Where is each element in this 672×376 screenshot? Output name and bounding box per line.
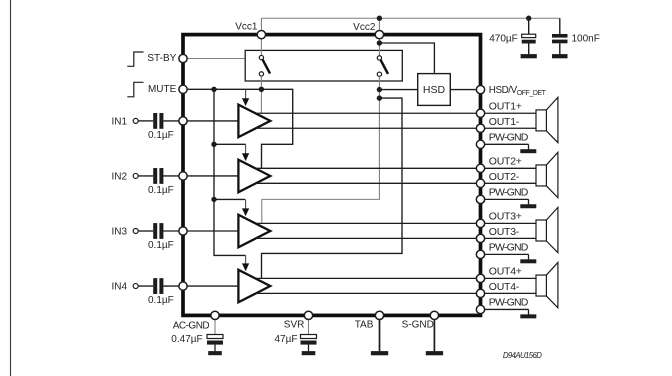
svg-text:D94AU156D: D94AU156D bbox=[503, 351, 542, 360]
svg-text:PW-GND: PW-GND bbox=[489, 186, 529, 198]
mute arrow into amp U3 bbox=[245, 199, 247, 209]
junction dot mute bus amp2 bbox=[211, 142, 216, 147]
wire Vcc2 to HSD top bbox=[379, 43, 434, 73]
wire C3 to pin IN3 bbox=[163, 230, 183, 232]
pin OUT1- bbox=[476, 124, 484, 132]
wire PW-GND 4 bbox=[481, 308, 529, 310]
svg-text:OUT3-: OUT3- bbox=[489, 226, 520, 238]
junction dot SW2/amp4 branch bbox=[377, 95, 382, 100]
mute arrow into amp U4 bbox=[245, 255, 247, 264]
ground PW-GND 4 bbox=[520, 314, 536, 318]
wire Vcc1 pin to switch SW1 bbox=[260, 37, 262, 56]
svg-text:AC-GND: AC-GND bbox=[173, 320, 210, 331]
pin IN1 bbox=[179, 117, 187, 125]
wire SVR to C8 bbox=[308, 317, 310, 334]
wire PW-GND 1 bbox=[481, 143, 529, 145]
ground of C7 bbox=[208, 351, 222, 355]
svg-text:470µF: 470µF bbox=[489, 34, 518, 45]
speaker LS1 bbox=[536, 110, 546, 131]
svg-text:MUTE: MUTE bbox=[148, 84, 177, 95]
wire HSD to HSD/Voff pin bbox=[450, 89, 480, 91]
capacitor C5 470uF bbox=[528, 18, 530, 34]
junction dot SW2/HSD feed bbox=[377, 40, 382, 45]
pin OUT4- bbox=[476, 289, 484, 297]
wire ST-BY to control box bbox=[187, 58, 245, 60]
input terminal IN4 bbox=[133, 284, 138, 289]
wire IN3 terminal to C3 bbox=[138, 230, 153, 232]
wire OUT2- bbox=[256, 182, 536, 184]
capacitor C2 0.1uF bbox=[153, 168, 157, 184]
wire Vcc supply rail bbox=[261, 17, 559, 19]
input terminal IN1 bbox=[133, 118, 138, 123]
speaker LS2 bbox=[536, 165, 546, 186]
wire Vcc2 pin to switch SW2 bbox=[378, 37, 380, 56]
svg-text:IN3: IN3 bbox=[111, 227, 127, 238]
svg-text:47µF: 47µF bbox=[275, 334, 298, 345]
HSD block U5 bbox=[418, 74, 451, 106]
pin Vcc2 bbox=[375, 30, 383, 38]
switch SW1 top contact bbox=[259, 55, 263, 59]
svg-text:HSD/VOFF_DET: HSD/VOFF_DET bbox=[489, 85, 547, 97]
wire OUT1+ bbox=[256, 112, 536, 114]
svg-text:TAB: TAB bbox=[355, 320, 374, 331]
input terminal IN2 bbox=[133, 173, 138, 178]
pin PW-GND 3 bbox=[476, 250, 484, 258]
pin PW-GND 1 bbox=[476, 140, 484, 148]
mute arrow into amp U1 bbox=[245, 89, 247, 99]
svg-text:100nF: 100nF bbox=[572, 34, 600, 45]
switch SW1 bottom contact bbox=[259, 72, 263, 76]
switch SW2 bottom contact bbox=[377, 72, 381, 76]
op-amp U4 bbox=[238, 270, 270, 303]
wire SW2 bus down to amp U3 bias bbox=[262, 76, 380, 223]
wire OUT1- bbox=[256, 127, 536, 129]
capacitor C6 100nF bbox=[559, 18, 561, 34]
svg-text:OUT1+: OUT1+ bbox=[489, 101, 522, 113]
svg-text:HSD: HSD bbox=[423, 84, 446, 96]
wire SW2 to HSD left bbox=[379, 89, 417, 91]
svg-text:IN1: IN1 bbox=[111, 117, 127, 128]
svg-text:PW-GND: PW-GND bbox=[489, 296, 529, 308]
capacitor C4 0.1uF bbox=[153, 278, 157, 294]
op-amp U3 bbox=[238, 215, 270, 248]
svg-text:Vcc1: Vcc1 bbox=[235, 22, 258, 33]
pin OUT2- bbox=[476, 179, 484, 187]
pin TAB bbox=[375, 311, 383, 319]
wire pin IN1 to amp U1 bbox=[183, 120, 238, 122]
wire SW1 to amp U1 bias bbox=[260, 76, 262, 113]
switch SW2 top contact bbox=[377, 56, 381, 60]
wire mute bus bbox=[214, 89, 246, 255]
wire IN1 terminal to C1 bbox=[138, 120, 153, 122]
wire Vcc2 riser bbox=[378, 18, 380, 30]
pin HSD/Voff_det bbox=[476, 85, 484, 93]
pin OUT1+ bbox=[476, 109, 484, 117]
pin SVR bbox=[304, 311, 312, 319]
switch SW1 blade bbox=[263, 60, 270, 74]
MUTE step symbol bbox=[127, 82, 143, 97]
svg-text:0.1µF: 0.1µF bbox=[148, 185, 174, 196]
pin OUT2+ bbox=[476, 164, 484, 172]
IC boundary box bbox=[183, 35, 481, 316]
control block box bbox=[245, 50, 402, 81]
junction dot Vcc2 on rail bbox=[377, 16, 382, 21]
svg-text:0.1µF: 0.1µF bbox=[148, 295, 174, 306]
pin OUT3+ bbox=[476, 219, 484, 227]
speaker LS4 bbox=[536, 275, 546, 296]
wire mute branch amp3 bbox=[214, 198, 245, 200]
ground of C5 bbox=[521, 54, 537, 58]
ground of S-GND bbox=[426, 351, 443, 355]
op-amp U1 bbox=[238, 105, 270, 137]
svg-text:OUT1-: OUT1- bbox=[489, 116, 520, 128]
junction dot mute bus amp3 bbox=[211, 197, 216, 202]
svg-text:OUT3+: OUT3+ bbox=[489, 211, 522, 223]
pin Vcc1 bbox=[257, 30, 265, 38]
wire PW-GND 3 bbox=[481, 253, 529, 255]
wire OUT4- bbox=[256, 292, 536, 294]
wire TAB to ground bbox=[379, 317, 381, 351]
capacitor C3 0.1uF bbox=[153, 223, 157, 239]
pin IN3 bbox=[179, 227, 187, 235]
svg-text:IN4: IN4 bbox=[111, 282, 127, 293]
ST-BY step symbol bbox=[127, 52, 143, 66]
wire S-GND to ground bbox=[433, 317, 435, 351]
wire OUT3- bbox=[256, 237, 536, 239]
speaker LS3 bbox=[536, 220, 546, 241]
ground PW-GND 3 bbox=[520, 259, 536, 263]
wire AC-GND to C7 bbox=[214, 317, 216, 334]
wire mute branch amp2 bbox=[214, 143, 246, 145]
ground PW-GND 1 bbox=[520, 149, 536, 153]
ground of TAB bbox=[371, 351, 388, 355]
junction dot SW2/HSD bbox=[377, 87, 382, 92]
capacitor C7 0.47uF bbox=[207, 335, 223, 339]
pin AC-GND bbox=[211, 311, 219, 319]
svg-text:PW-GND: PW-GND bbox=[489, 241, 529, 253]
ground PW-GND 2 bbox=[520, 204, 536, 208]
junction dot mute bus top bbox=[211, 87, 216, 92]
wire pin IN2 to amp U2 bbox=[183, 175, 238, 177]
wire pin IN4 to amp U4 bbox=[183, 285, 238, 287]
svg-text:PW-GND: PW-GND bbox=[489, 131, 529, 143]
junction dot 470uF on rail bbox=[526, 16, 531, 21]
ground of C8 bbox=[302, 351, 316, 355]
pin OUT3- bbox=[476, 234, 484, 242]
wire SW2 to amp U4 bias bbox=[262, 98, 403, 278]
ground of C6 bbox=[552, 54, 568, 58]
pin PW-GND 2 bbox=[476, 195, 484, 203]
capacitor C1 0.1uF bbox=[153, 113, 157, 129]
wire MUTE net bbox=[183, 89, 293, 168]
svg-text:IN2: IN2 bbox=[111, 172, 127, 183]
svg-text:OUT4-: OUT4- bbox=[489, 281, 520, 293]
wire OUT3+ bbox=[256, 222, 536, 224]
mute arrow into amp U2 bbox=[245, 144, 247, 154]
svg-text:0.1µF: 0.1µF bbox=[148, 240, 174, 251]
wire OUT4+ bbox=[256, 277, 536, 279]
svg-text:ST-BY: ST-BY bbox=[147, 53, 176, 64]
svg-text:OUT4+: OUT4+ bbox=[489, 266, 522, 278]
svg-text:SVR: SVR bbox=[284, 320, 305, 331]
switch SW2 blade bbox=[381, 60, 388, 74]
pin MUTE bbox=[179, 85, 187, 93]
wire PW-GND 2 bbox=[481, 198, 529, 200]
wire C2 to pin IN2 bbox=[163, 175, 183, 177]
wire C4 to pin IN4 bbox=[163, 285, 183, 287]
wire C1 to pin IN1 bbox=[163, 120, 183, 122]
svg-text:OUT2+: OUT2+ bbox=[489, 156, 522, 168]
pin OUT4+ bbox=[476, 274, 484, 282]
svg-text:Vcc2: Vcc2 bbox=[353, 22, 376, 33]
svg-text:0.47µF: 0.47µF bbox=[171, 334, 202, 345]
input terminal IN3 bbox=[133, 229, 138, 234]
svg-text:OUT2-: OUT2- bbox=[489, 171, 520, 183]
wire pin IN3 to amp U3 bbox=[183, 230, 238, 232]
op-amp U2 bbox=[238, 160, 270, 193]
pin IN4 bbox=[179, 282, 187, 290]
wire IN2 terminal to C2 bbox=[138, 175, 153, 177]
wire Vcc1 riser bbox=[260, 18, 262, 30]
pin PW-GND 4 bbox=[476, 305, 484, 313]
svg-text:S-GND: S-GND bbox=[402, 320, 434, 331]
svg-text:0.1µF: 0.1µF bbox=[148, 130, 174, 141]
pin ST-BY bbox=[179, 54, 187, 62]
pin S-GND bbox=[430, 311, 438, 319]
capacitor C8 47uF bbox=[301, 335, 317, 339]
junction dot MUTE/SW1 bbox=[259, 87, 264, 92]
pin IN2 bbox=[179, 172, 187, 180]
wire IN4 terminal to C4 bbox=[138, 285, 153, 287]
wire OUT2+ bbox=[256, 167, 536, 169]
